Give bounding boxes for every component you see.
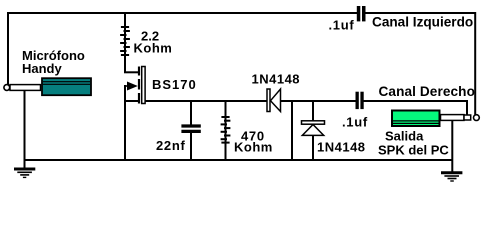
svg-text:1N4148: 1N4148	[317, 140, 366, 155]
wire signal rail from C3 to output bend	[364, 101, 468, 115]
svg-text:22nf: 22nf	[156, 138, 186, 153]
ground right	[441, 173, 462, 181]
wire junction vertical at x292	[291, 101, 293, 160]
speaker output body	[392, 111, 440, 127]
wire top rail right segment	[365, 12, 476, 14]
diode D2 1N4148 vertical	[302, 101, 325, 160]
svg-text:.1uf: .1uf	[329, 17, 355, 32]
mic plug shaft	[10, 85, 41, 91]
output plug shaft	[441, 115, 465, 121]
contact bar source	[138, 93, 140, 104]
wire left vertical from top rail to mic jack	[7, 12, 9, 85]
svg-text:Canal Izquierdo: Canal Izquierdo	[372, 15, 473, 30]
wire right vertical from top rail to output jack circle	[474, 12, 476, 115]
node output jack circle	[474, 115, 480, 121]
wire signal rail from transistor to D1	[145, 100, 267, 102]
svg-text:Salida: Salida	[385, 129, 424, 144]
output plug tip	[464, 115, 471, 120]
wire mic sleeve down to bottom rail	[24, 91, 26, 168]
contact bar gate	[138, 79, 140, 90]
contact bar drain	[138, 67, 140, 76]
svg-text:BS170: BS170	[152, 77, 197, 92]
gate electrode plate	[142, 67, 145, 104]
ground left	[14, 169, 35, 177]
wire bottom rail	[25, 159, 453, 161]
capacitor C2 22nf	[181, 101, 200, 160]
capacitor C1 .1uf top	[357, 6, 366, 21]
wire top rail left segment	[7, 12, 357, 14]
source lead	[124, 100, 138, 102]
node mic jack circle	[4, 85, 10, 91]
svg-text:.1uf: .1uf	[342, 115, 368, 130]
svg-text:Kohm: Kohm	[134, 41, 173, 56]
diode D1 1N4148 horizontal	[267, 89, 281, 112]
svg-text:1N4148: 1N4148	[252, 71, 301, 86]
gate/source vertical down to bottom rail	[124, 85, 126, 160]
arrow on gate lead	[127, 82, 138, 91]
svg-text:Canal Derecho: Canal Derecho	[379, 84, 476, 99]
svg-text:SPK del PC: SPK del PC	[378, 143, 449, 158]
wire signal rail from D1 to C3	[281, 100, 356, 102]
resistor R2 470 Kohm	[221, 101, 231, 160]
resistor R1 2.2 Kohm	[120, 12, 130, 72]
wire output sleeve down to ground	[451, 121, 453, 172]
transistor Q1 BS170	[124, 67, 145, 161]
capacitor C3 .1uf bottom	[356, 92, 364, 109]
svg-text:Handy: Handy	[22, 61, 63, 76]
svg-text:Kohm: Kohm	[234, 140, 273, 155]
drain lead bend	[124, 71, 138, 73]
microphone body	[42, 78, 91, 95]
